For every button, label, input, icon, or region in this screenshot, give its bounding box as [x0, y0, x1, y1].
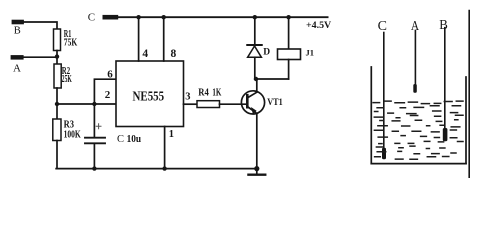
svg-text:A: A	[13, 62, 21, 74]
ground rail wire	[56, 168, 257, 170]
node junction cap-pin2	[92, 102, 96, 106]
electrode A wire	[414, 31, 416, 85]
svg-text:6: 6	[107, 68, 113, 80]
svg-text:B: B	[439, 18, 448, 33]
wire relay branch top	[288, 17, 290, 49]
wire R2 to R3	[56, 88, 58, 119]
ground	[256, 169, 258, 174]
svg-text:C: C	[88, 11, 95, 23]
wire relay to junction	[288, 60, 290, 80]
transistor Q1 VT1	[241, 91, 264, 114]
node junction rail-diode	[253, 15, 257, 19]
svg-text:C: C	[378, 19, 387, 34]
relay J1 coil	[278, 49, 301, 60]
wire A	[24, 56, 57, 58]
terminal A	[11, 55, 24, 60]
node junction cap-ground	[92, 166, 96, 170]
wire R4 to base	[220, 103, 248, 105]
svg-text:1: 1	[169, 129, 174, 140]
resistor R1	[54, 29, 61, 51]
resistor R2	[54, 64, 61, 88]
wire diode branch top	[254, 17, 256, 44]
electrode B tip	[443, 128, 448, 141]
svg-text:100K: 100K	[64, 130, 81, 141]
terminal B	[12, 20, 24, 25]
tank tall right line	[468, 11, 470, 178]
wire R1 to R2	[56, 51, 58, 65]
water	[373, 101, 463, 159]
wire pin4	[138, 17, 140, 61]
diode D	[248, 46, 262, 57]
wire pin6	[94, 79, 116, 104]
svg-text:C: C	[117, 134, 124, 145]
svg-text:NE555: NE555	[133, 90, 165, 105]
svg-text:4: 4	[142, 48, 148, 60]
capacitor C1 polarity plus	[96, 124, 101, 129]
svg-text:1K: 1K	[212, 87, 221, 98]
node junction rail-pin4	[136, 15, 140, 19]
node junction rail-relay	[286, 15, 290, 19]
svg-text:75K: 75K	[64, 38, 78, 49]
wire emitter down	[256, 113, 258, 168]
terminal C	[103, 15, 119, 20]
wire diode to junction	[254, 57, 256, 79]
electrode B wire	[444, 28, 446, 129]
svg-text:3: 3	[185, 91, 190, 102]
capacitor C1 wire top	[93, 104, 95, 137]
wire pin1	[164, 127, 166, 169]
svg-text:10u: 10u	[127, 134, 142, 145]
svg-text:R4: R4	[198, 87, 209, 98]
diode D cathode bar	[247, 44, 262, 46]
tank bottom	[371, 163, 466, 165]
wire pin8	[163, 17, 165, 61]
capacitor C1 plates	[85, 138, 105, 144]
node junction A-R1-R2	[55, 54, 59, 58]
svg-text:B: B	[14, 26, 21, 37]
wire R3 to ground rail	[56, 141, 58, 169]
node junction emitter-ground	[254, 166, 259, 171]
electrode A tip	[413, 84, 417, 93]
resistor R3	[53, 119, 61, 141]
svg-text:8: 8	[171, 48, 177, 60]
svg-text:+4.5V: +4.5V	[306, 21, 331, 31]
tank right wall	[465, 77, 467, 164]
svg-text:25K: 25K	[62, 74, 72, 85]
electrode C wire	[383, 33, 385, 150]
op-amp U1 NE555 box	[116, 61, 184, 127]
node junction collector	[254, 77, 258, 81]
power rail wire +4.5V	[118, 16, 328, 18]
svg-text:J1: J1	[306, 48, 315, 58]
capacitor C1 wire bottom	[93, 144, 95, 169]
wire collector up	[256, 79, 258, 92]
resistor R4	[197, 101, 220, 108]
svg-text:D: D	[263, 48, 270, 58]
svg-text:VT1: VT1	[267, 97, 283, 107]
svg-text:2: 2	[105, 89, 111, 101]
wire pin3	[184, 103, 198, 105]
tank left wall	[370, 67, 372, 164]
node junction rail-pin8	[162, 15, 166, 19]
node junction R2-R3-pin2	[55, 102, 59, 106]
wire collector junction line	[255, 78, 289, 80]
electrode C tip	[382, 148, 386, 159]
wire B to R1	[24, 22, 57, 29]
wire pin2	[57, 103, 116, 105]
node junction pin1-ground	[162, 166, 166, 170]
